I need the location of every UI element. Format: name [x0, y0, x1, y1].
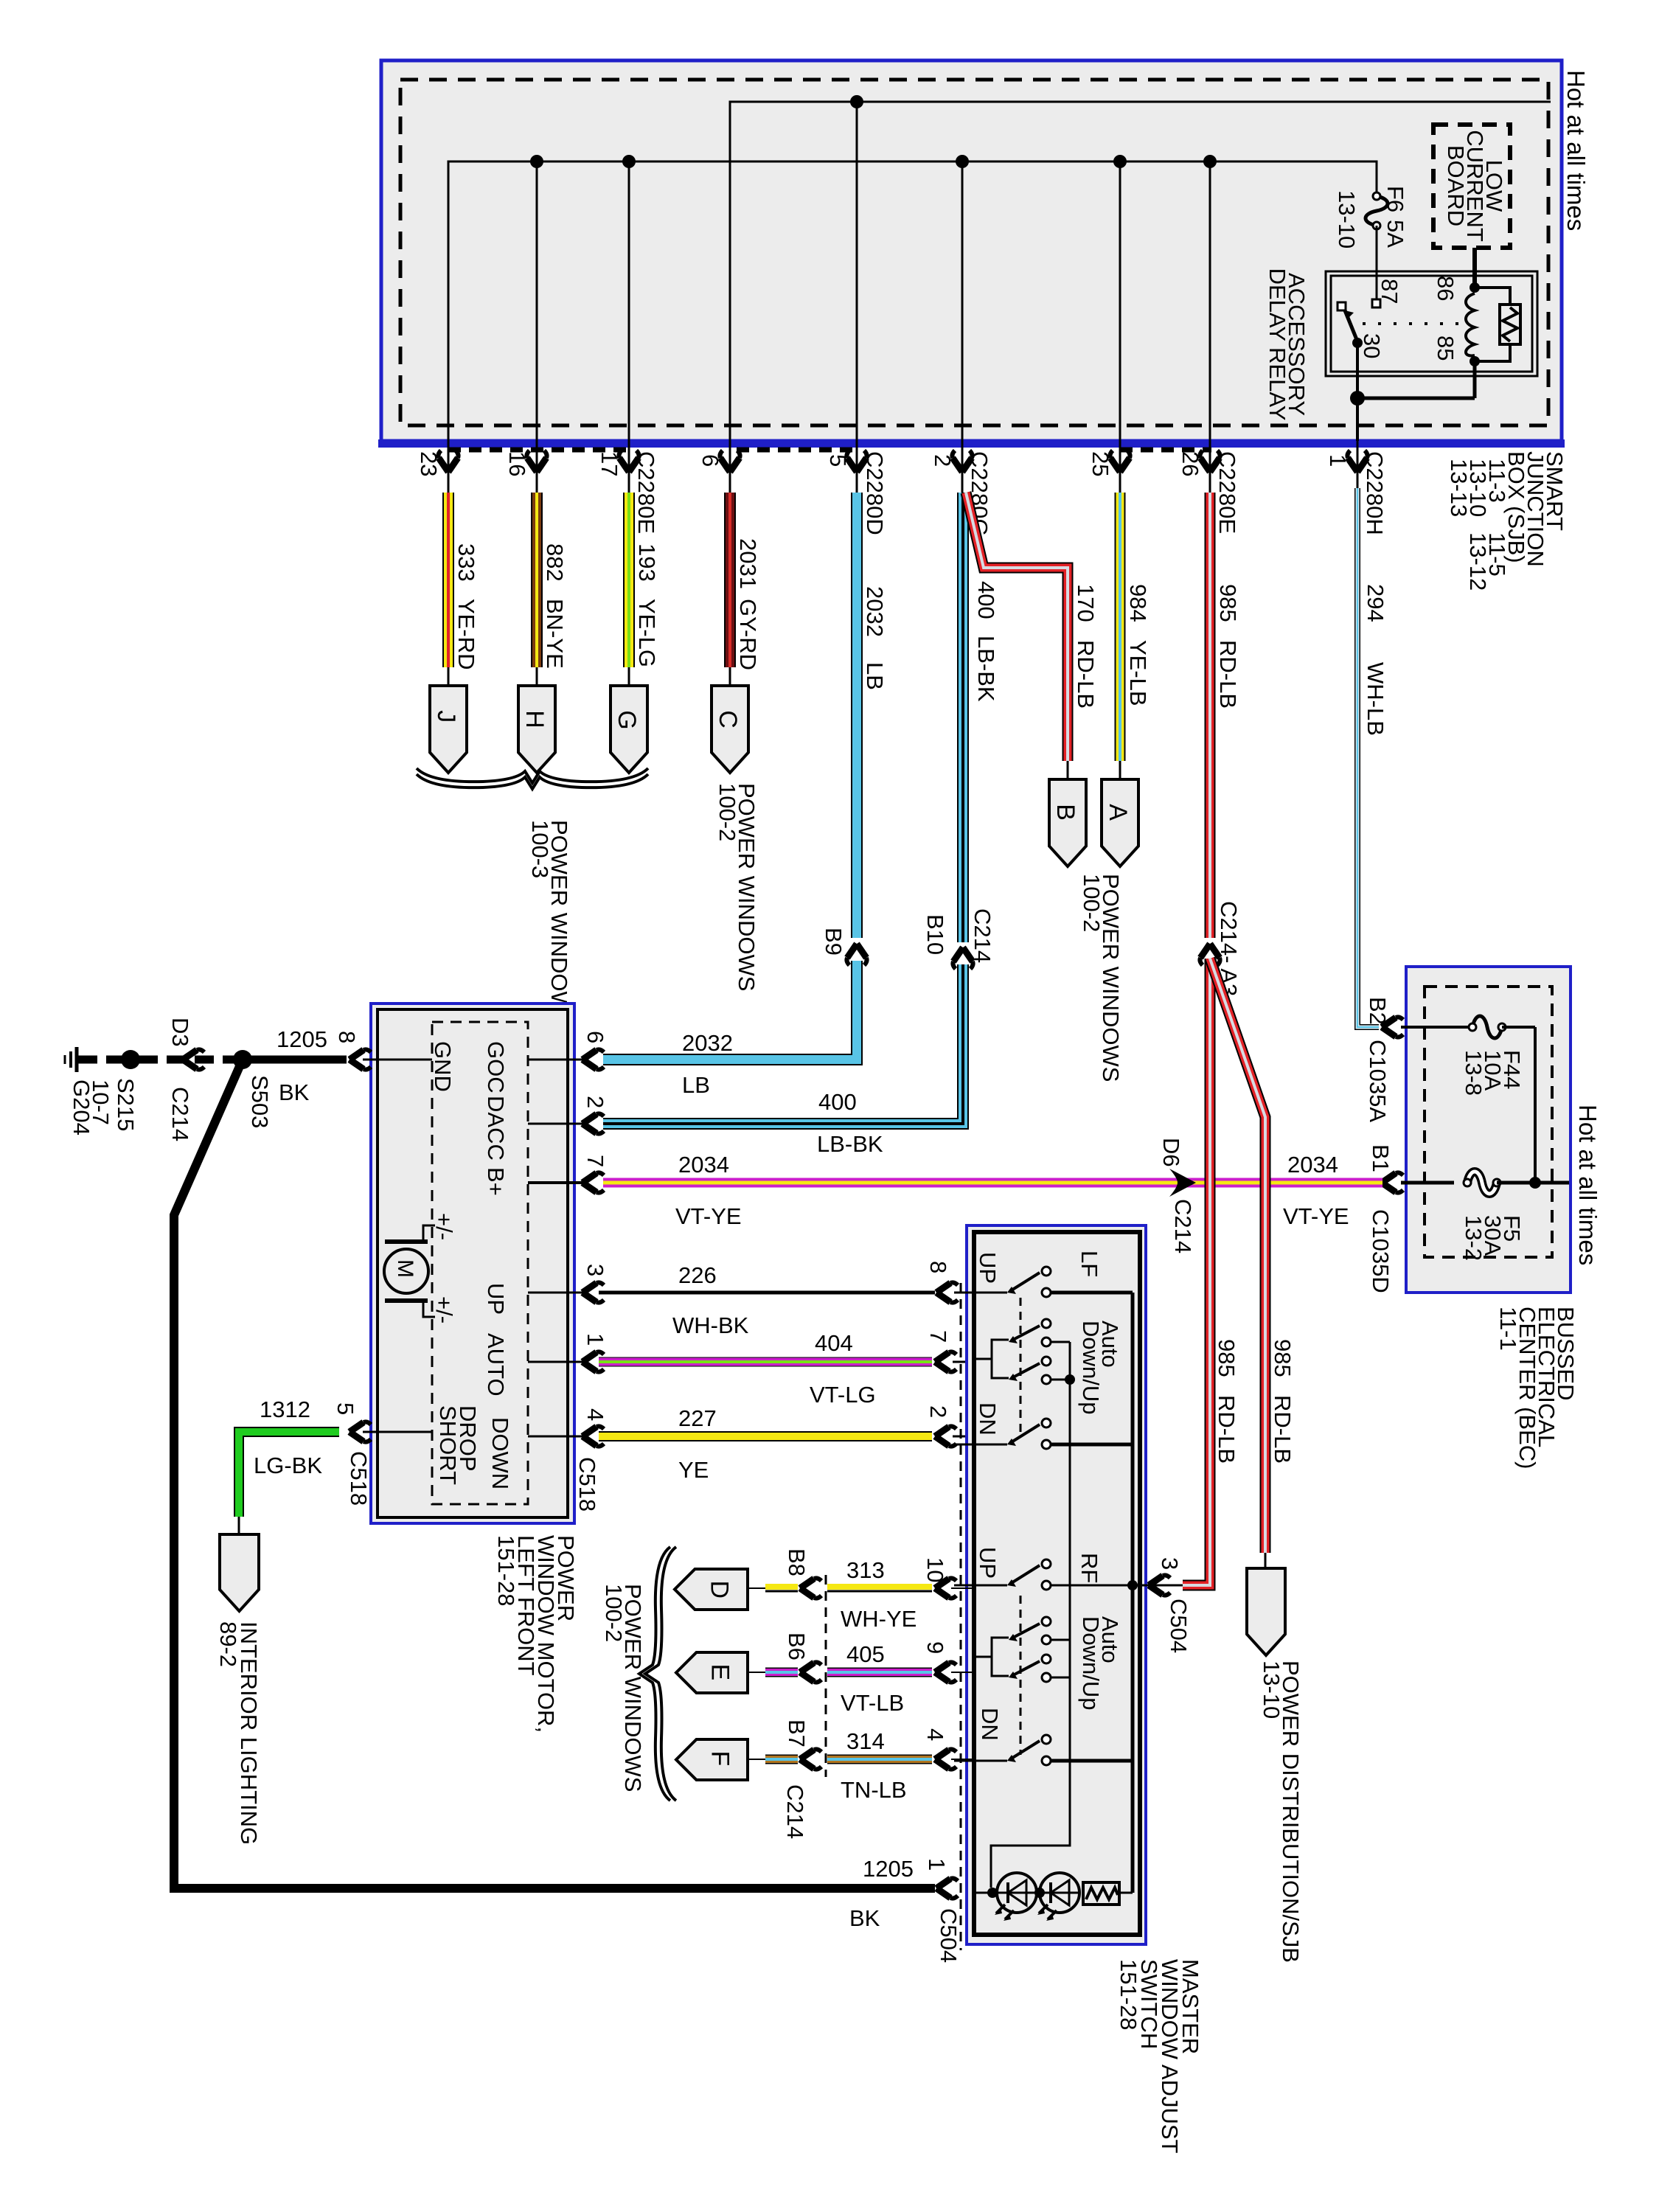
svg-text:400: 400	[973, 581, 999, 619]
svg-text:RD-LB: RD-LB	[1215, 640, 1241, 709]
svg-text:89-2: 89-2	[215, 1621, 241, 1667]
svg-text:G: G	[613, 710, 641, 729]
svg-text:C504: C504	[1166, 1599, 1192, 1653]
svg-text:DN: DN	[975, 1402, 1001, 1436]
svg-text:1: 1	[582, 1333, 608, 1346]
svg-text:11-1: 11-1	[1495, 1307, 1521, 1351]
svg-text:M: M	[393, 1259, 417, 1278]
svg-text:170: 170	[1073, 584, 1099, 622]
svg-text:100-2: 100-2	[601, 1584, 627, 1642]
svg-text:D6: D6	[1158, 1138, 1184, 1167]
svg-text:313: 313	[846, 1557, 885, 1583]
svg-text:4: 4	[922, 1728, 948, 1741]
svg-text:26: 26	[1178, 451, 1203, 476]
svg-text:BN-YE: BN-YE	[542, 599, 568, 669]
svg-text:C214: C214	[1170, 1199, 1196, 1253]
svg-text:10: 10	[922, 1557, 948, 1582]
svg-text:13-12: 13-12	[1465, 532, 1491, 591]
svg-text:AUTO: AUTO	[483, 1333, 509, 1397]
svg-text:985: 985	[1214, 1339, 1239, 1377]
svg-text:985: 985	[1270, 1339, 1295, 1377]
svg-text:Down/Up: Down/Up	[1078, 1321, 1104, 1415]
svg-text:404: 404	[815, 1330, 853, 1356]
svg-text:LB-BK: LB-BK	[817, 1131, 883, 1157]
svg-text:C214: C214	[167, 1087, 193, 1141]
svg-text:F6: F6	[1382, 186, 1408, 212]
svg-text:YE-LG: YE-LG	[634, 599, 660, 667]
svg-text:+/-: +/-	[431, 1296, 457, 1324]
svg-text:D3: D3	[167, 1018, 193, 1047]
svg-text:E: E	[706, 1664, 734, 1681]
svg-text:16: 16	[504, 451, 530, 476]
svg-text:1: 1	[1325, 454, 1351, 467]
svg-text:87: 87	[1377, 279, 1402, 304]
svg-text:RD-LB: RD-LB	[1214, 1395, 1239, 1464]
svg-text:100-2: 100-2	[1079, 874, 1105, 932]
svg-text:13-13: 13-13	[1446, 459, 1472, 517]
svg-text:UP: UP	[975, 1547, 1001, 1579]
svg-text:B2: B2	[1365, 997, 1391, 1025]
svg-text:100-2: 100-2	[714, 783, 740, 841]
svg-text:400: 400	[818, 1089, 857, 1115]
svg-text:BOARD: BOARD	[1443, 145, 1469, 226]
svg-text:VT-YE: VT-YE	[675, 1203, 742, 1229]
svg-text:B9: B9	[821, 928, 846, 956]
svg-text:25: 25	[1088, 451, 1113, 476]
svg-text:7: 7	[582, 1155, 608, 1167]
svg-text:S503: S503	[247, 1075, 273, 1128]
svg-text:151-28: 151-28	[1116, 1959, 1141, 2031]
svg-text:B: B	[1051, 804, 1079, 821]
svg-text:3: 3	[1157, 1557, 1183, 1570]
svg-text:17: 17	[597, 451, 622, 476]
svg-text:30: 30	[1359, 333, 1385, 358]
svg-text:+/-: +/-	[431, 1213, 457, 1240]
svg-text:B8: B8	[784, 1548, 810, 1576]
svg-text:YE-RD: YE-RD	[453, 599, 479, 669]
svg-text:LB: LB	[862, 662, 888, 690]
svg-text:C1035A: C1035A	[1365, 1040, 1391, 1122]
svg-text:2034: 2034	[678, 1152, 729, 1178]
svg-text:882: 882	[542, 543, 568, 582]
svg-text:5: 5	[825, 454, 851, 467]
svg-text:1205: 1205	[276, 1026, 327, 1052]
svg-text:B6: B6	[784, 1632, 810, 1660]
svg-text:RF: RF	[1077, 1553, 1102, 1583]
svg-text:C518: C518	[574, 1457, 600, 1512]
svg-text:C1035D: C1035D	[1368, 1209, 1394, 1293]
svg-text:C2280E: C2280E	[633, 451, 659, 534]
svg-text:13-10: 13-10	[1334, 190, 1360, 248]
svg-text:8: 8	[334, 1031, 360, 1043]
svg-text:GY-RD: GY-RD	[735, 599, 761, 670]
svg-text:5A: 5A	[1382, 220, 1408, 248]
svg-text:S215: S215	[113, 1078, 139, 1131]
svg-text:YE-LB: YE-LB	[1125, 640, 1151, 706]
svg-text:13-10: 13-10	[1259, 1660, 1284, 1719]
svg-text:2034: 2034	[1287, 1152, 1338, 1178]
svg-text:9: 9	[922, 1641, 948, 1654]
svg-text:Hot at all times: Hot at all times	[1574, 1105, 1601, 1265]
svg-text:405: 405	[846, 1641, 885, 1667]
svg-text:A: A	[1104, 804, 1132, 821]
svg-text:YE: YE	[678, 1457, 709, 1483]
svg-text:Hot at all times: Hot at all times	[1562, 70, 1590, 231]
svg-text:C214: C214	[970, 908, 995, 963]
svg-text:151-28: 151-28	[493, 1535, 519, 1607]
svg-text:23: 23	[416, 451, 442, 476]
svg-text:2: 2	[582, 1096, 608, 1108]
svg-text:DOWN: DOWN	[487, 1417, 513, 1489]
svg-text:C2280H: C2280H	[1362, 451, 1388, 535]
svg-text:DROP: DROP	[455, 1405, 481, 1472]
svg-text:D: D	[705, 1581, 733, 1599]
svg-text:BK: BK	[279, 1079, 310, 1105]
svg-text:Down/Up: Down/Up	[1078, 1616, 1104, 1711]
svg-text:2032: 2032	[682, 1030, 733, 1056]
svg-text:1312: 1312	[260, 1397, 310, 1422]
svg-text:193: 193	[634, 543, 660, 582]
svg-text:B+: B+	[483, 1167, 509, 1196]
svg-text:DELAY RELAY: DELAY RELAY	[1265, 268, 1290, 421]
svg-text:C2280D: C2280D	[862, 451, 888, 535]
svg-text:LF: LF	[1077, 1251, 1102, 1277]
svg-text:VT-YE: VT-YE	[1283, 1203, 1349, 1229]
svg-text:B1: B1	[1368, 1144, 1394, 1172]
svg-text:100-3: 100-3	[527, 820, 553, 878]
svg-text:85: 85	[1433, 335, 1458, 361]
svg-text:10-7: 10-7	[88, 1079, 114, 1125]
svg-text:LG-BK: LG-BK	[254, 1453, 322, 1478]
svg-text:WH-BK: WH-BK	[672, 1312, 749, 1338]
svg-text:B10: B10	[922, 914, 948, 955]
svg-text:VT-LB: VT-LB	[841, 1690, 904, 1716]
svg-text:984: 984	[1125, 584, 1151, 622]
svg-text:H: H	[521, 710, 549, 728]
svg-text:2: 2	[925, 1405, 951, 1418]
svg-text:C2280E: C2280E	[1214, 451, 1240, 534]
svg-text:C: C	[714, 710, 742, 728]
svg-text:86: 86	[1433, 276, 1458, 301]
svg-text:4: 4	[582, 1408, 608, 1421]
svg-text:BK: BK	[849, 1905, 880, 1931]
svg-text:B7: B7	[784, 1719, 810, 1747]
svg-text:6: 6	[698, 454, 723, 467]
svg-text:13-2: 13-2	[1461, 1215, 1486, 1261]
svg-text:2032: 2032	[862, 586, 888, 637]
svg-text:227: 227	[678, 1405, 717, 1431]
svg-text:1205: 1205	[863, 1856, 914, 1882]
svg-text:333: 333	[453, 543, 479, 582]
svg-text:WH-YE: WH-YE	[841, 1606, 917, 1632]
svg-text:UP: UP	[975, 1252, 1001, 1284]
svg-text:1: 1	[924, 1858, 950, 1871]
svg-text:DN: DN	[977, 1708, 1003, 1741]
svg-text:LB: LB	[682, 1072, 710, 1098]
svg-text:13-8: 13-8	[1461, 1050, 1486, 1096]
svg-text:UP: UP	[483, 1283, 509, 1315]
svg-text:LB-BK: LB-BK	[973, 636, 999, 702]
svg-text:314: 314	[846, 1728, 885, 1754]
svg-text:DACC: DACC	[483, 1096, 509, 1161]
svg-text:F: F	[706, 1751, 734, 1767]
svg-text:RD-LB: RD-LB	[1270, 1395, 1295, 1464]
svg-text:C504: C504	[936, 1908, 961, 1963]
svg-text:TN-LB: TN-LB	[841, 1777, 907, 1803]
svg-text:J: J	[432, 710, 460, 723]
svg-text:7: 7	[925, 1330, 951, 1343]
svg-text:8: 8	[925, 1261, 951, 1273]
svg-text:2: 2	[930, 454, 956, 467]
svg-text:WH-LB: WH-LB	[1363, 662, 1388, 736]
svg-text:2031: 2031	[735, 538, 761, 589]
svg-text:C518: C518	[346, 1451, 372, 1506]
svg-text:3: 3	[582, 1264, 608, 1276]
svg-text:GOC: GOC	[483, 1041, 509, 1093]
svg-text:985: 985	[1215, 584, 1241, 622]
svg-text:226: 226	[678, 1262, 717, 1288]
svg-text:294: 294	[1363, 584, 1388, 622]
svg-text:6: 6	[582, 1031, 608, 1043]
svg-text:GND: GND	[430, 1041, 456, 1092]
svg-text:C214: C214	[782, 1784, 808, 1839]
svg-text:5: 5	[333, 1402, 358, 1415]
svg-text:RD-LB: RD-LB	[1073, 640, 1099, 709]
svg-text:VT-LG: VT-LG	[810, 1382, 876, 1408]
